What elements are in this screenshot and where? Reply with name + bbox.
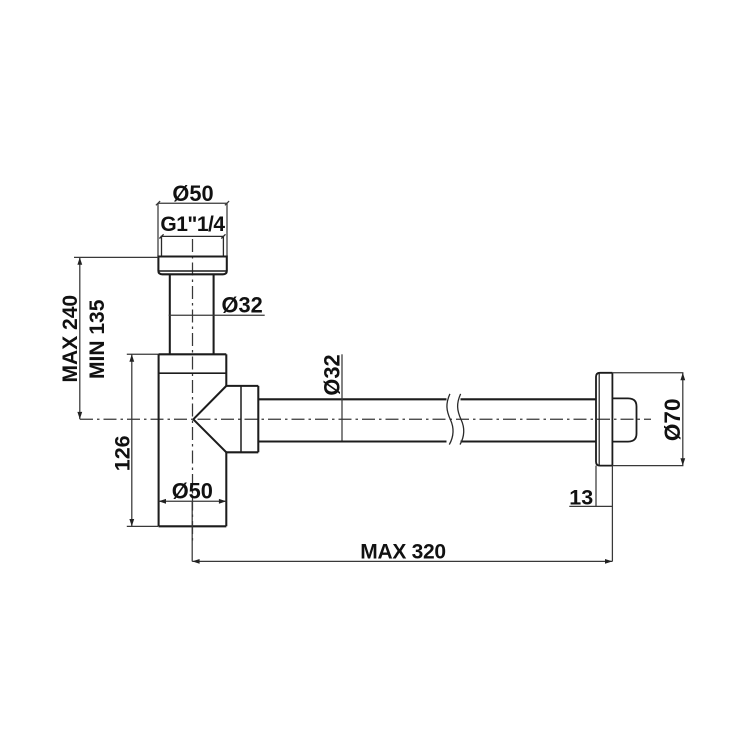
- horizontal outlet pipe Ø32: [258, 399, 596, 441]
- leader line for Ø32 inlet: [169, 314, 265, 316]
- svg-text:MAX 320: MAX 320: [360, 541, 445, 564]
- vertical inlet pipe Ø32: [169, 274, 171, 354]
- svg-text:Ø70: Ø70: [660, 399, 685, 442]
- svg-text:Ø50: Ø50: [172, 479, 213, 504]
- wall flange Ø70: [596, 373, 612, 466]
- dimension line Ø50 body: [159, 500, 227, 502]
- trap body (bottle): [159, 354, 227, 526]
- pipe stub behind flange: [612, 398, 636, 441]
- svg-text:Ø32: Ø32: [222, 292, 263, 317]
- pipe break symbol: [447, 394, 464, 445]
- horizontal centerline of outlet pipe: [80, 418, 651, 420]
- dimension line Ø50 top: [156, 201, 229, 256]
- leader tick for outlet Ø32: [341, 354, 343, 440]
- svg-text:MIN 135: MIN 135: [86, 299, 109, 379]
- dimension MAX 320: [192, 501, 612, 561]
- top coupling nut: [158, 257, 226, 275]
- svg-text:G1"1/4: G1"1/4: [160, 213, 225, 236]
- svg-text:Ø32: Ø32: [320, 354, 345, 395]
- dimension 126: [127, 354, 159, 526]
- dimension Ø70: [612, 373, 683, 466]
- svg-text:MAX 240: MAX 240: [59, 295, 82, 383]
- dimension 13: [569, 466, 612, 562]
- svg-text:Ø50: Ø50: [172, 181, 213, 206]
- dimension MAX 240 / MIN 135: [74, 257, 158, 419]
- svg-text:13: 13: [569, 486, 593, 510]
- tee nut seam: [240, 386, 242, 452]
- nut bottom seam: [158, 270, 226, 272]
- thread stub with G1"1/4 dimension line: [159, 234, 225, 256]
- flange lip line: [598, 374, 600, 466]
- vertical centerline of trap body: [192, 239, 194, 544]
- tee cone of outlet: [193, 386, 258, 452]
- body cap seam: [159, 372, 227, 374]
- svg-text:126: 126: [111, 435, 135, 471]
